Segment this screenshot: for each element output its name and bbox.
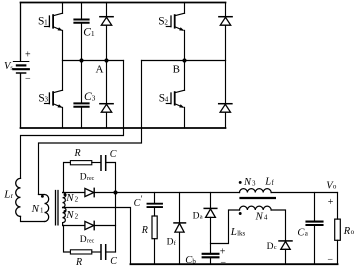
label Drec upper (80, 173, 95, 183)
diode D-left-top (100, 3, 113, 61)
svg-text:R: R (141, 225, 148, 236)
snubber branch C' and R (148, 193, 163, 265)
wire node-A down-left to transformer (21, 61, 124, 179)
wire bottom rail (21, 127, 226, 129)
svg-text:+: + (220, 247, 226, 258)
label Da (193, 211, 203, 221)
svg-text:b: b (192, 258, 196, 266)
svg-text:R: R (75, 257, 82, 267)
svg-text:′: ′ (141, 194, 143, 204)
capacitor Ca branch (307, 193, 323, 265)
svg-text:N: N (65, 209, 74, 221)
label Ro (343, 226, 355, 237)
label N2 lower (65, 209, 78, 221)
snubber upper: wire left leg (64, 163, 71, 193)
svg-text:N: N (243, 177, 252, 188)
transistor S4 (166, 61, 184, 129)
svg-text:s: s (10, 65, 13, 72)
svg-text:f: f (174, 240, 177, 247)
wire row after Drec lower (94, 225, 115, 227)
wire R to C lower (92, 251, 101, 253)
svg-text:1: 1 (91, 29, 95, 38)
label Lr (3, 189, 13, 201)
diode Da branch (204, 193, 217, 254)
wire left battery wires (20, 3, 22, 129)
wire center tap to bottom rail (63, 208, 131, 265)
capacitor C1 (74, 3, 88, 61)
label C' (134, 194, 143, 209)
wire row after Drec (94, 192, 239, 194)
svg-text:−: − (327, 254, 333, 265)
svg-text:+: + (328, 197, 334, 208)
svg-text:a: a (305, 230, 309, 238)
diode D-right-bottom (219, 61, 232, 129)
inductor Lr (16, 178, 21, 216)
svg-text:+: + (25, 50, 31, 61)
svg-text:L: L (3, 189, 10, 201)
diode Df branch (174, 193, 186, 265)
resistor R lower (70, 250, 91, 254)
polarity dot N4 (239, 212, 242, 215)
svg-text:rec: rec (87, 238, 95, 244)
transistor S1 (45, 3, 63, 61)
diode D-left-bottom (100, 61, 113, 129)
svg-text:D: D (80, 173, 87, 183)
label Vs (4, 50, 31, 85)
polarity dot N2 upper (64, 193, 67, 196)
wire Lr bottom to N1 bottom (21, 216, 45, 221)
diode D-right-top (219, 3, 232, 61)
wire N4 right lead (271, 210, 285, 241)
svg-text:a: a (200, 214, 203, 221)
wire node-A row (63, 60, 124, 62)
wire output return rail (131, 263, 338, 265)
svg-text:D: D (193, 211, 200, 221)
svg-text:3: 3 (92, 94, 96, 103)
label Dc (267, 242, 277, 252)
node B junction dot (182, 58, 186, 62)
svg-text:c: c (274, 244, 277, 251)
diode Dc (279, 241, 292, 264)
wire lower rectifier row (63, 225, 85, 227)
svg-text:f: f (272, 179, 275, 187)
svg-text:A: A (96, 64, 104, 76)
label Cb (185, 247, 226, 267)
svg-text:1: 1 (44, 19, 48, 27)
secondary winding N2 lower (63, 208, 66, 226)
svg-text:N: N (31, 203, 40, 215)
label Lf (264, 177, 274, 188)
resistor Ro branch (335, 193, 341, 265)
wire node-B row (142, 60, 226, 62)
label N4 (255, 210, 268, 222)
label Vo and output polarity (326, 180, 337, 265)
svg-text:rec: rec (87, 176, 95, 182)
label N3 (243, 177, 256, 188)
wire C to row lower (106, 251, 115, 253)
label S2 (158, 15, 168, 27)
node A junction dot at diode leg (104, 58, 108, 62)
label Ca (297, 227, 308, 238)
svg-text:D: D (167, 238, 174, 248)
svg-text:4: 4 (264, 214, 268, 222)
svg-text:D: D (80, 235, 87, 245)
svg-text:2: 2 (164, 19, 168, 27)
transformer primary N1 (39, 195, 49, 222)
svg-text:L: L (264, 177, 271, 188)
capacitor C lower (101, 245, 106, 260)
svg-text:N: N (65, 192, 74, 204)
wire R to C (92, 162, 101, 164)
svg-text:R: R (74, 148, 81, 159)
svg-text:C: C (134, 198, 141, 209)
svg-text:2: 2 (75, 212, 79, 220)
transformer core (56, 191, 59, 225)
svg-text:4: 4 (165, 96, 169, 104)
resistor R upper (70, 161, 91, 165)
wire output row right of N3 (271, 192, 337, 194)
capacitor C3 (74, 61, 88, 129)
svg-text:o: o (351, 228, 355, 236)
wire node-B down-left to transformer (39, 61, 142, 195)
label N1 (31, 203, 44, 215)
capacitor Cb (203, 254, 219, 264)
label S1 (38, 15, 48, 27)
snubber lower: wire left leg (64, 226, 71, 253)
voltage source Vs (13, 62, 28, 74)
svg-text:−: − (220, 258, 226, 267)
label C1 (83, 27, 95, 39)
label Df (167, 238, 177, 248)
svg-text:lks: lks (237, 229, 245, 237)
diode Drec lower (85, 221, 94, 229)
node A junction dot at C1/C3 leg (79, 58, 83, 62)
svg-text:−: − (25, 74, 31, 85)
winding N4 (240, 206, 272, 210)
svg-text:1: 1 (40, 207, 44, 215)
svg-text:C: C (110, 149, 117, 160)
svg-text:2: 2 (75, 196, 79, 204)
wire top rail (21, 2, 226, 4)
label Llks (230, 226, 246, 238)
polarity dot N3 (239, 181, 242, 184)
svg-text:D: D (267, 242, 274, 252)
label Drec lower (80, 235, 95, 245)
coupled inductor N3 / Lf (inline on row) (240, 189, 272, 193)
secondary winding N2 upper (63, 193, 66, 208)
wire C to row (106, 163, 115, 193)
svg-text:r: r (11, 192, 14, 200)
svg-text:R: R (343, 226, 351, 237)
wire upper rectifier row (63, 192, 85, 194)
svg-text:B: B (173, 63, 180, 75)
transistor S2 (166, 3, 184, 61)
svg-text:o: o (333, 183, 337, 191)
svg-text:C: C (110, 256, 117, 267)
polarity dot N1 (41, 195, 44, 198)
diode Drec upper (85, 188, 94, 196)
svg-text:3: 3 (252, 179, 256, 187)
label N2 upper (65, 192, 78, 204)
wire rectifier link vertical (115, 193, 117, 253)
label S4 (159, 92, 169, 104)
svg-text:N: N (255, 210, 264, 222)
label S3 (38, 92, 48, 104)
polarity dot N2 lower (64, 210, 67, 213)
wire N4 left lead loop (211, 210, 240, 244)
capacitor C upper (101, 156, 106, 171)
svg-text:3: 3 (45, 96, 49, 104)
transistor S3 (45, 61, 63, 129)
junction dot rectifier output (113, 190, 117, 194)
svg-text:L: L (230, 226, 237, 238)
label C3 (84, 91, 96, 103)
core bar of coupled inductor (241, 197, 275, 199)
